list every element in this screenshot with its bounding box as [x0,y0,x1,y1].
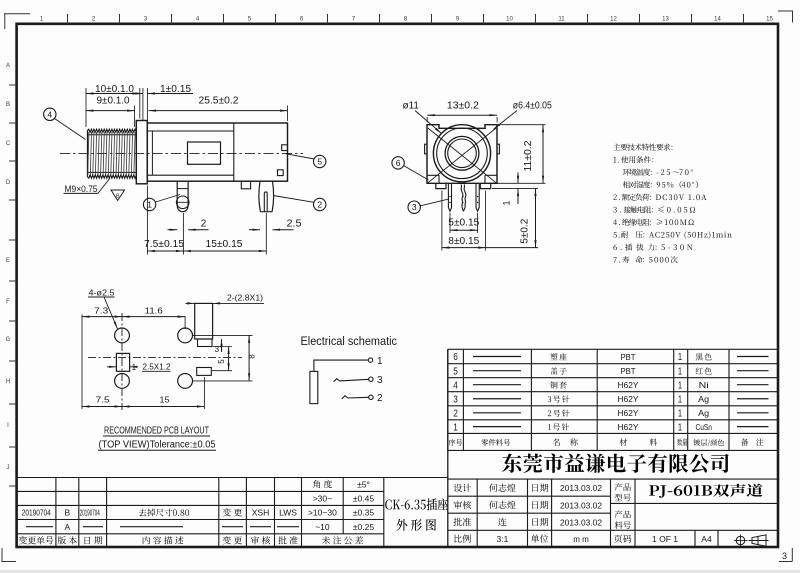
front view diagonal centerlines [428,128,496,183]
svg-text:9±0.1.0: 9±0.1.0 [97,96,130,107]
svg-text:3: 3 [377,375,383,386]
svg-text:2: 2 [453,408,458,420]
svg-text:D: D [6,180,11,186]
left margin grid row letters A-J [6,63,11,471]
pcb layout slot [116,353,129,371]
front view pin holes [449,196,450,197]
svg-text:13: 13 [662,17,669,23]
pcb layout tab cutout small A [198,339,213,347]
revision table header [19,536,54,544]
svg-text:1: 1 [678,394,683,405]
svg-text:H62Y: H62Y [618,380,639,390]
title block rows: design/check/approve [454,484,471,492]
svg-text:B: B [6,102,10,108]
parts list table grid [448,348,778,350]
front view support tab left [436,183,446,188]
drawing title CK-6.35 socket [385,498,448,510]
svg-text:Ag: Ag [698,408,709,418]
svg-text:3: 3 [412,202,417,212]
revision table tolerance rows [313,480,332,488]
svg-text:2.5: 2.5 [287,219,302,230]
svg-text:A: A [64,522,70,532]
front view pin left [448,184,451,211]
front view right edge bump [497,144,499,154]
svg-text:1: 1 [678,352,683,363]
dimension 1 slot [107,366,116,368]
product model label [615,483,631,491]
corner trim mark bottom-right, sheet number 3 [779,548,792,562]
side view centerline [60,152,303,154]
svg-text:Ni: Ni [699,380,709,390]
svg-text:4: 4 [453,379,458,391]
svg-text:1: 1 [678,422,683,433]
first angle projection symbol [736,536,745,545]
svg-text:H62Y: H62Y [618,422,639,432]
pcb layout tab cutout tall [195,303,213,339]
front view concentric circles [433,125,490,182]
company name row [502,453,728,472]
left margin ticks [9,84,17,86]
svg-text:13±0.2: 13±0.2 [447,101,479,112]
svg-text:1: 1 [453,421,458,433]
product model value PJ-601B [649,484,763,498]
gray strip at bottom page edge [0,570,800,573]
side view bottom tab [241,181,250,189]
svg-text:2: 2 [201,219,207,230]
svg-text:15±0.15: 15±0.15 [206,239,243,250]
front view pin right [476,184,479,211]
svg-text:B: B [64,508,70,518]
svg-text:11±0.2: 11±0.2 [523,140,534,171]
svg-text:7.5: 7.5 [96,395,110,405]
balloon 3 [408,201,420,213]
product part number label [615,510,631,518]
svg-text:6: 6 [453,351,458,363]
svg-text:5±0.15: 5±0.15 [448,218,479,229]
schematic terminal 1 [368,358,372,362]
svg-text:7.3: 7.3 [94,306,108,316]
balloon 4 [44,108,56,120]
side view body inner lines [148,130,234,132]
svg-text:J: J [7,465,10,471]
svg-text:>30~: >30~ [313,494,332,504]
side view right edge notch upper [282,145,288,151]
svg-text:2: 2 [317,200,322,210]
svg-text:20190704: 20190704 [80,509,100,518]
svg-text:Electrical schematic: Electrical schematic [301,334,398,348]
side view pin 1 with hole [176,181,178,205]
svg-text:15: 15 [766,17,773,23]
front view left edge bump [425,144,427,154]
svg-text:7.5±0.15: 7.5±0.15 [144,239,184,250]
svg-text:5: 5 [217,359,226,364]
svg-text:1: 1 [147,200,152,210]
schematic terminal 2 switch [342,396,348,399]
svg-text:~10: ~10 [315,522,330,532]
schematic sleeve contact [310,371,318,403]
svg-text:PBT: PBT [621,366,636,376]
pcb layout left extension line [81,314,83,409]
title block bottom row [454,534,470,542]
svg-text:±0.35: ±0.35 [353,508,374,518]
parts list header row [449,439,463,446]
svg-text:3: 3 [453,393,458,405]
svg-text:±0.25: ±0.25 [353,522,374,532]
front view bottom corner steps [427,174,439,176]
svg-text:CuSn: CuSn [695,422,712,432]
pcb layout hole centerline vertical [121,313,123,410]
corner trim mark top-left [4,14,30,29]
svg-text:20190704: 20190704 [22,509,51,518]
svg-text:14: 14 [714,17,721,23]
svg-text:11.6: 11.6 [145,306,163,316]
svg-text:LWS: LWS [279,508,297,518]
svg-text:(TOP VIEW)Tolerance:±0.05: (TOP VIEW)Tolerance:±0.05 [99,440,216,451]
svg-text:PBT: PBT [621,352,636,362]
corner trim mark top-right [778,11,793,23]
svg-text:±5°: ±5° [357,479,370,489]
svg-text:m m: m m [573,535,589,544]
svg-text:C: C [6,141,11,147]
svg-text:ø11: ø11 [403,101,420,112]
svg-text:11: 11 [558,17,565,23]
revision table grid [17,477,449,479]
svg-text:2.5X1.2: 2.5X1.2 [143,362,171,372]
side view right edge notch lower [278,170,284,176]
svg-text:1: 1 [678,366,683,377]
svg-text:25.5±0.2: 25.5±0.2 [199,96,239,107]
svg-text:2013.03.02: 2013.03.02 [560,518,602,527]
svg-text:A4: A4 [701,534,712,544]
svg-text:5: 5 [317,157,322,167]
svg-text:RECOMMENDED PCB LAYOUT: RECOMMENDED PCB LAYOUT [104,426,209,437]
front view pin middle wavy [461,185,463,212]
svg-text:12: 12 [610,17,617,23]
side view body outline [147,123,287,181]
svg-text:H62Y: H62Y [618,408,639,418]
pcb layout centerline horizontal [88,357,242,359]
svg-text:15: 15 [160,395,170,405]
top margin grid column numbers 1-15 [40,17,774,23]
front view body outline with corner ears [427,125,497,184]
side view hex flange [136,121,147,184]
svg-text:Ag: Ag [698,394,709,404]
svg-text:ø6.4±0.05: ø6.4±0.05 [513,101,552,112]
title block grid [448,478,778,480]
svg-text:G: G [6,337,11,343]
svg-text:XSH: XSH [252,508,269,518]
revision row A [26,526,53,528]
svg-text:4: 4 [47,109,52,119]
balloon 1 [143,198,155,210]
machining mark triangle [111,190,125,201]
svg-text:2-(2.8X1): 2-(2.8X1) [227,293,263,303]
svg-text:1 OF 1: 1 OF 1 [652,534,678,544]
corner trim mark bottom-left [2,548,16,562]
svg-text:6: 6 [396,158,401,168]
svg-text:8±0.15: 8±0.15 [448,236,479,247]
svg-text:>10~30: >10~30 [308,508,337,518]
svg-text:2013.03.02: 2013.03.02 [560,484,602,493]
svg-text:1: 1 [377,356,383,367]
svg-text:H: H [6,379,10,385]
svg-text:1: 1 [678,409,683,420]
pcb layout tab cutout small B [197,368,212,376]
balloon 2 [314,198,326,210]
svg-text:3:1: 3:1 [496,534,508,544]
svg-text:10: 10 [506,17,513,23]
side view threaded bushing M9 thread [88,129,137,132]
top margin ticks [67,14,69,24]
side view pin 2 bifurcated [259,181,260,212]
svg-text:1: 1 [132,363,137,372]
technical requirement notes [613,144,672,151]
svg-text:±0.45: ±0.45 [353,494,374,504]
schematic terminal 3 switch [334,379,340,382]
svg-text:5±0.2: 5±0.2 [520,218,531,243]
svg-text:H62Y: H62Y [618,394,639,404]
svg-text:4-ø2.5: 4-ø2.5 [89,288,115,298]
svg-text:A: A [6,63,10,69]
svg-text:2: 2 [377,393,383,404]
svg-text:2013.03.02: 2013.03.02 [560,501,602,510]
svg-text:1: 1 [678,380,683,391]
svg-text:F: F [6,299,10,305]
svg-text:3: 3 [782,551,787,561]
svg-text:5: 5 [453,365,458,377]
front view support tab right [480,183,490,188]
balloon 5 [314,155,326,167]
pcb layout mounting holes [115,328,130,343]
svg-text:1: 1 [502,200,512,205]
side view body window [188,142,221,164]
balloon 6 [392,157,404,169]
svg-text:E: E [6,258,10,264]
